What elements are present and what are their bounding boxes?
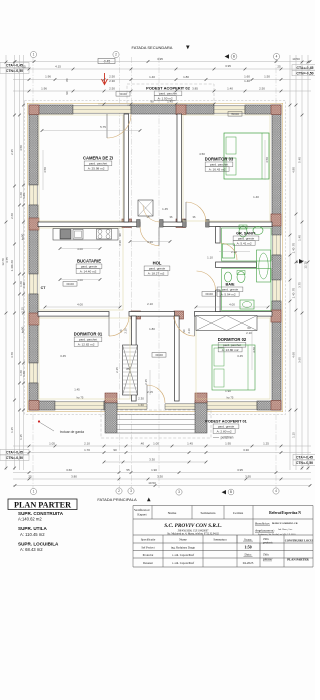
svg-text:3.95: 3.95 bbox=[245, 475, 251, 479]
svg-text:1.45: 1.45 bbox=[187, 442, 193, 446]
svg-text:HOL: HOL bbox=[153, 261, 162, 266]
svg-text:A: 5.94 m2: A: 5.94 m2 bbox=[221, 292, 236, 296]
svg-text:1.45: 1.45 bbox=[167, 100, 173, 104]
svg-text:1.40: 1.40 bbox=[292, 247, 296, 253]
svg-text:2.10: 2.10 bbox=[187, 328, 191, 334]
svg-text:2.10: 2.10 bbox=[118, 240, 122, 246]
svg-text:±0.00: ±0.00 bbox=[231, 112, 239, 116]
svg-text:Semnatura: Semnatura bbox=[213, 538, 227, 542]
svg-text:A: 16.43 m2: A: 16.43 m2 bbox=[209, 167, 226, 171]
svg-text:DORMITOR 02: DORMITOR 02 bbox=[218, 337, 247, 342]
svg-text:5.40: 5.40 bbox=[298, 157, 302, 163]
svg-text:4.00: 4.00 bbox=[77, 303, 83, 307]
svg-text:1.60: 1.60 bbox=[244, 75, 250, 79]
svg-text:SUPR. LOCUIBILA: SUPR. LOCUIBILA bbox=[18, 541, 59, 546]
svg-text:CTA=-0,45: CTA=-0,45 bbox=[296, 456, 313, 460]
svg-text:60: 60 bbox=[247, 326, 251, 330]
svg-text:hp90: hp90 bbox=[21, 326, 25, 333]
svg-text:A: 110.45 m2: A: 110.45 m2 bbox=[20, 532, 45, 537]
svg-text:±0.00: ±0.00 bbox=[66, 282, 74, 286]
svg-text:A: 2.80 m2: A: 2.80 m2 bbox=[217, 429, 232, 433]
svg-text:GR. SANIT.: GR. SANIT. bbox=[236, 232, 256, 236]
svg-text:±0.00: ±0.00 bbox=[205, 292, 213, 296]
svg-text:2.35: 2.35 bbox=[10, 149, 14, 155]
svg-text:ing. Raduinea Dragn: ing. Raduinea Dragn bbox=[171, 545, 196, 549]
svg-text:1.80: 1.80 bbox=[149, 327, 155, 331]
svg-text:04-2025: 04-2025 bbox=[243, 561, 254, 565]
svg-text:PODEST ACOPERIT 02: PODEST ACOPERIT 02 bbox=[146, 86, 190, 91]
svg-text:trotuar de garda: trotuar de garda bbox=[60, 430, 84, 434]
svg-text:PLAN PARTER: PLAN PARTER bbox=[287, 558, 309, 562]
svg-text:1.40: 1.40 bbox=[22, 282, 26, 288]
svg-text:3.60: 3.60 bbox=[66, 468, 72, 472]
svg-text:4.15: 4.15 bbox=[55, 65, 61, 69]
svg-text:3.75: 3.75 bbox=[298, 282, 302, 288]
svg-text:1: 1 bbox=[33, 53, 35, 57]
svg-text:55: 55 bbox=[126, 468, 130, 472]
svg-text:25: 25 bbox=[277, 65, 281, 69]
svg-text:MARCU SABRINA CR: MARCU SABRINA CR bbox=[272, 522, 298, 525]
svg-text:A: 14.40 m2: A: 14.40 m2 bbox=[80, 269, 97, 273]
svg-text:4.00: 4.00 bbox=[77, 278, 83, 282]
svg-text:1.45: 1.45 bbox=[74, 388, 80, 392]
svg-text:pard. parchet: pard. parchet bbox=[79, 338, 97, 342]
svg-text:Expert: Expert bbox=[137, 512, 146, 516]
svg-text:hp90: hp90 bbox=[21, 233, 25, 240]
svg-text:CAMERA DE ZI: CAMERA DE ZI bbox=[83, 156, 113, 161]
svg-text:2.30: 2.30 bbox=[109, 79, 115, 83]
svg-text:PODEST ACOPERIT 01: PODEST ACOPERIT 01 bbox=[205, 420, 246, 424]
svg-text:3.30: 3.30 bbox=[157, 475, 163, 479]
svg-text:CTN=-0,50: CTN=-0,50 bbox=[296, 71, 313, 75]
svg-text:1.40: 1.40 bbox=[22, 371, 26, 377]
svg-text:1.40: 1.40 bbox=[149, 75, 155, 79]
svg-text:4.50: 4.50 bbox=[43, 167, 47, 173]
svg-text:Desenat: Desenat bbox=[143, 561, 153, 565]
svg-text:polistiren: polistiren bbox=[221, 436, 234, 440]
svg-text:4.50: 4.50 bbox=[19, 145, 23, 151]
svg-text:3: 3 bbox=[178, 490, 180, 494]
svg-text:pard. gresie: pard. gresie bbox=[149, 267, 166, 271]
svg-text:DORMITOR 03: DORMITOR 03 bbox=[205, 157, 234, 162]
svg-text:1.60: 1.60 bbox=[138, 403, 144, 407]
svg-text:3.85: 3.85 bbox=[192, 87, 198, 91]
svg-text:1.45: 1.45 bbox=[162, 207, 168, 211]
svg-text:2.50: 2.50 bbox=[109, 87, 115, 91]
svg-text:pard. parchet: pard. parchet bbox=[223, 343, 241, 347]
svg-text:SUPR. UTILA: SUPR. UTILA bbox=[18, 526, 48, 531]
svg-text:S.C. PROVIV CON S.R.L.: S.C. PROVIV CON S.R.L. bbox=[164, 523, 222, 529]
svg-text:SUPR. CONSTRUITA: SUPR. CONSTRUITA bbox=[18, 511, 64, 516]
svg-text:plansa:: plansa: bbox=[262, 557, 273, 561]
svg-text:2: 2 bbox=[115, 53, 117, 57]
svg-text:Proiectat: Proiectat bbox=[143, 553, 154, 557]
svg-text:25: 25 bbox=[22, 65, 26, 69]
svg-text:1.40: 1.40 bbox=[298, 235, 302, 241]
svg-text:2: 2 bbox=[118, 489, 120, 493]
svg-text:4: 4 bbox=[276, 55, 278, 59]
svg-text:A: 68.43 m2: A: 68.43 m2 bbox=[20, 547, 43, 552]
svg-text:Stefanescu, Str. Devilul, nr.: Stefanescu, Str. Devilul, nr. 5/B, C.F. … bbox=[258, 533, 296, 536]
svg-text:A: 13.80 m2: A: 13.80 m2 bbox=[222, 348, 239, 352]
svg-text:4.00: 4.00 bbox=[77, 247, 83, 251]
svg-text:3.95: 3.95 bbox=[237, 468, 243, 472]
svg-text:4.50: 4.50 bbox=[199, 152, 205, 156]
svg-text:Semnatura: Semnatura bbox=[201, 511, 216, 515]
svg-text:Specificatie: Specificatie bbox=[141, 538, 156, 542]
svg-text:CTN=-0,50: CTN=-0,50 bbox=[296, 461, 313, 465]
svg-text:pard. gresie: pard. gresie bbox=[238, 237, 255, 241]
svg-text:1.50: 1.50 bbox=[264, 75, 270, 79]
svg-text:Referat/Expertiza N: Referat/Expertiza N bbox=[269, 511, 301, 515]
svg-text:FATADA PRINCIPALA: FATADA PRINCIPALA bbox=[97, 497, 137, 502]
svg-text:3.95: 3.95 bbox=[225, 64, 231, 68]
svg-text:2.10: 2.10 bbox=[84, 442, 90, 446]
svg-text:pard. parchet: pard. parchet bbox=[210, 163, 228, 167]
svg-text:Nume: Nume bbox=[179, 538, 187, 542]
svg-text:Nume: Nume bbox=[168, 511, 177, 515]
svg-text:1.40: 1.40 bbox=[22, 193, 26, 199]
svg-text:pard. gresie: pard. gresie bbox=[222, 288, 239, 292]
svg-text:Data:: Data: bbox=[245, 553, 252, 557]
svg-text:12.70: 12.70 bbox=[1, 258, 5, 266]
svg-text:3.80: 3.80 bbox=[71, 475, 77, 479]
svg-text:c. arh. Capota/Ibsrf: c. arh. Capota/Ibsrf bbox=[172, 553, 194, 557]
svg-text:2.50: 2.50 bbox=[259, 87, 265, 91]
svg-text:.40: .40 bbox=[140, 442, 145, 446]
svg-text:90: 90 bbox=[113, 448, 117, 452]
svg-text:BAIE: BAIE bbox=[225, 283, 235, 287]
svg-text:25: 25 bbox=[28, 475, 32, 479]
svg-text:4.50: 4.50 bbox=[265, 157, 269, 163]
svg-text:DORMITOR 01: DORMITOR 01 bbox=[74, 332, 103, 337]
svg-text:4.60: 4.60 bbox=[292, 352, 296, 358]
svg-text:.70: .70 bbox=[292, 288, 296, 292]
svg-text:3.45: 3.45 bbox=[60, 354, 66, 358]
svg-text:2.10: 2.10 bbox=[147, 302, 153, 306]
svg-text:4.80: 4.80 bbox=[292, 167, 296, 173]
svg-text:1: 1 bbox=[33, 490, 35, 494]
svg-text:2.60: 2.60 bbox=[10, 213, 14, 219]
svg-text:B: B bbox=[233, 55, 235, 59]
svg-text:1.80: 1.80 bbox=[183, 75, 189, 79]
svg-text:FATADA SECUNDARA: FATADA SECUNDARA bbox=[132, 45, 173, 50]
svg-text:2.50: 2.50 bbox=[109, 74, 115, 78]
svg-text:pard. parchet: pard. parchet bbox=[89, 162, 107, 166]
svg-text:3.30: 3.30 bbox=[243, 448, 249, 452]
svg-text:1.95: 1.95 bbox=[225, 442, 231, 446]
svg-text:Sef Proiect: Sef Proiect bbox=[141, 545, 154, 549]
svg-text:A: 5.41 m2: A: 5.41 m2 bbox=[237, 241, 252, 245]
svg-text:B: B bbox=[230, 490, 232, 494]
svg-text:4.60: 4.60 bbox=[252, 347, 256, 353]
svg-text:A:140.62 m2: A:140.62 m2 bbox=[18, 517, 42, 522]
svg-text:2.20: 2.20 bbox=[231, 250, 237, 254]
svg-text:Amplasament:: Amplasament: bbox=[254, 529, 275, 533]
svg-text:5.75: 5.75 bbox=[100, 125, 106, 129]
svg-text:1.40: 1.40 bbox=[292, 292, 296, 298]
svg-text:Str. Mulatesti nr. 4, Hurez, t: Str. Mulatesti nr. 4, Hurez, telefon: 07… bbox=[167, 533, 219, 536]
svg-text:.70: .70 bbox=[292, 243, 296, 247]
svg-text:1.40: 1.40 bbox=[253, 195, 259, 199]
svg-text:2.15: 2.15 bbox=[21, 307, 25, 313]
svg-text:CONSTRUIRE LOCUI: CONSTRUIRE LOCUI bbox=[285, 540, 314, 543]
svg-text:Verificator/: Verificator/ bbox=[134, 508, 150, 512]
svg-text:A: 18.27 m2: A: 18.27 m2 bbox=[148, 271, 165, 275]
svg-text:2.15: 2.15 bbox=[144, 379, 148, 385]
svg-text:A: 25.98 m2: A: 25.98 m2 bbox=[88, 166, 105, 170]
svg-text:3.30: 3.30 bbox=[149, 458, 155, 462]
svg-text:CT: CT bbox=[41, 286, 47, 290]
svg-text:2.15: 2.15 bbox=[115, 367, 119, 373]
svg-text:±0.00: ±0.00 bbox=[119, 92, 127, 96]
svg-text:3.70: 3.70 bbox=[10, 352, 14, 358]
svg-text:90: 90 bbox=[65, 91, 69, 95]
svg-text:1.96: 1.96 bbox=[41, 87, 47, 91]
svg-text:Beneficiar:: Beneficiar: bbox=[255, 522, 270, 526]
svg-text:1.40: 1.40 bbox=[227, 87, 233, 91]
svg-text:1.15: 1.15 bbox=[19, 434, 23, 440]
svg-text:3.75: 3.75 bbox=[5, 257, 9, 263]
svg-text:pard. gresie: pard. gresie bbox=[81, 265, 98, 269]
svg-text:1.05: 1.05 bbox=[49, 442, 55, 446]
svg-text:1.90: 1.90 bbox=[151, 468, 157, 472]
svg-text:proiect:: proiect: bbox=[262, 541, 273, 545]
svg-text:3.26: 3.26 bbox=[147, 240, 153, 244]
svg-text:3: 3 bbox=[130, 489, 132, 493]
svg-text:1.90: 1.90 bbox=[225, 389, 231, 393]
svg-text:4: 4 bbox=[275, 489, 277, 493]
svg-text:90: 90 bbox=[150, 100, 154, 104]
svg-text:1.40: 1.40 bbox=[10, 265, 14, 271]
svg-text:Jud. Hurez, Loc.: Jud. Hurez, Loc. bbox=[278, 529, 293, 531]
svg-text:4.00: 4.00 bbox=[229, 303, 235, 307]
svg-text:1.40: 1.40 bbox=[244, 79, 250, 83]
svg-text:1.10: 1.10 bbox=[207, 256, 213, 260]
svg-text:1:50: 1:50 bbox=[244, 545, 251, 550]
svg-text:3.45: 3.45 bbox=[237, 354, 243, 358]
svg-text:PLAN PARTER: PLAN PARTER bbox=[14, 500, 71, 509]
svg-text:1.96: 1.96 bbox=[45, 75, 51, 79]
svg-text:1.00: 1.00 bbox=[153, 442, 159, 446]
svg-text:1.15: 1.15 bbox=[10, 427, 14, 433]
svg-text:1.60: 1.60 bbox=[10, 260, 14, 266]
svg-text:BUCATARIE: BUCATARIE bbox=[77, 259, 101, 264]
svg-text:12.70: 12.70 bbox=[304, 261, 308, 269]
svg-text:Titlu: Titlu bbox=[263, 553, 269, 557]
svg-text:80: 80 bbox=[65, 78, 69, 82]
svg-text:Scara:: Scara: bbox=[244, 537, 252, 541]
svg-text:2.10: 2.10 bbox=[246, 331, 252, 335]
svg-text:1.70: 1.70 bbox=[84, 448, 90, 452]
svg-text:85: 85 bbox=[126, 367, 130, 371]
svg-text:90: 90 bbox=[118, 233, 122, 236]
svg-text:Cerinta: Cerinta bbox=[233, 511, 244, 515]
svg-text:3.95: 3.95 bbox=[157, 57, 163, 61]
svg-text:3.65: 3.65 bbox=[298, 357, 302, 363]
svg-text:pard. gresie: pard. gresie bbox=[218, 425, 235, 429]
svg-text:A: 12.82 m2: A: 12.82 m2 bbox=[78, 342, 95, 346]
svg-text:10.50: 10.50 bbox=[148, 481, 156, 485]
svg-text:c. arh. Capota/Ibsrf: c. arh. Capota/Ibsrf bbox=[172, 561, 194, 565]
svg-text:1.15: 1.15 bbox=[292, 432, 296, 438]
svg-text:1.25: 1.25 bbox=[263, 442, 269, 446]
svg-text:±0.00: ±0.00 bbox=[155, 353, 163, 357]
svg-text:2.30: 2.30 bbox=[138, 397, 144, 401]
